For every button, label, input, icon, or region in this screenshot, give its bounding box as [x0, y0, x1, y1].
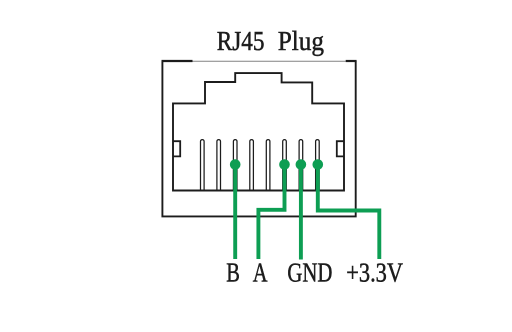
- junction dot pin 3: [230, 159, 241, 170]
- wire GND from pin 7: [299, 165, 303, 260]
- svg-text:Plug: Plug: [278, 26, 324, 56]
- svg-text:B: B: [226, 257, 240, 287]
- right latch tab: [337, 141, 344, 156]
- svg-text:A: A: [253, 257, 268, 287]
- pin 5: [266, 140, 270, 191]
- pin 7: [299, 140, 303, 191]
- jack inner cavity profile: [173, 73, 344, 190]
- pin 2: [217, 140, 221, 191]
- pin 4: [250, 140, 254, 191]
- pin 6: [283, 140, 287, 191]
- RJ45 jack outer body: [162, 61, 357, 216]
- title RJ45 Plug: [217, 26, 324, 56]
- pin 3: [233, 140, 237, 191]
- svg-text:GND: GND: [287, 257, 332, 287]
- svg-text:RJ45: RJ45: [217, 26, 265, 56]
- junction dot pin 7: [296, 159, 307, 170]
- junction dot pin 8: [313, 159, 324, 170]
- pin 8: [316, 140, 320, 191]
- wire A from pin 6: [258, 165, 284, 260]
- junction dot pin 6: [279, 159, 290, 170]
- svg-text:+3.3V: +3.3V: [346, 257, 403, 287]
- pin 1: [201, 140, 205, 191]
- wire +3.3V from pin 8: [318, 165, 380, 260]
- wire B from pin 3: [233, 165, 237, 260]
- left latch tab: [173, 141, 180, 156]
